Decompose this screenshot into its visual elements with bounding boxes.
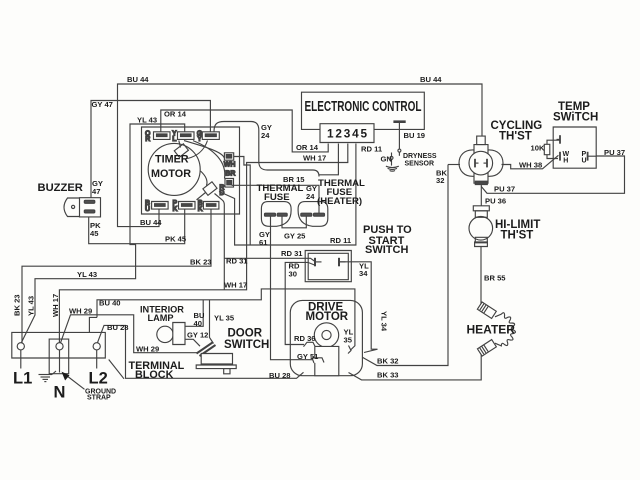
svg-text:BLOCK: BLOCK <box>135 369 174 381</box>
timer terminal OR <box>145 130 170 143</box>
svg-text:BUZZER: BUZZER <box>38 182 83 194</box>
wire BU19 (electronic control to dryness sensor) <box>398 123 400 150</box>
svg-text:24: 24 <box>261 131 270 140</box>
svg-text:FUSE: FUSE <box>264 192 290 203</box>
svg-text:TH'ST: TH'ST <box>499 131 532 143</box>
door switch <box>196 343 236 374</box>
svg-text:U: U <box>582 158 587 165</box>
wire YL43 box around timer <box>21 124 184 343</box>
timer terminal WH <box>224 153 236 169</box>
svg-text:LAMP: LAMP <box>148 313 174 323</box>
svg-text:WH 29: WH 29 <box>69 307 92 316</box>
electronic control pin box 1 2 3 4 5 <box>320 124 374 143</box>
svg-text:TIMER: TIMER <box>155 154 189 166</box>
timer terminal YL <box>172 130 194 143</box>
svg-text:SWITCH: SWITCH <box>224 339 269 351</box>
svg-text:47: 47 <box>92 187 100 196</box>
svg-text:BU 19: BU 19 <box>404 131 426 140</box>
svg-text:WH 29: WH 29 <box>136 345 159 354</box>
electronic control box <box>302 92 425 129</box>
timer terminal BU <box>145 200 168 213</box>
svg-text:DOOR: DOOR <box>228 328 263 340</box>
svg-text:U: U <box>145 206 150 213</box>
svg-text:RD 11: RD 11 <box>361 145 383 154</box>
wire BR15 (timer BR terminal to thermal fuse heater) <box>232 185 319 213</box>
wire YL35 door switch drop <box>210 300 214 344</box>
svg-text:BR 55: BR 55 <box>484 274 506 283</box>
svg-text:R: R <box>145 136 150 143</box>
push to start switch box <box>305 251 351 282</box>
svg-text:YL 43: YL 43 <box>77 270 97 279</box>
svg-text:RD 31: RD 31 <box>226 257 248 266</box>
dryness sensor ground symbol <box>386 166 399 171</box>
svg-text:RD 31: RD 31 <box>281 249 303 258</box>
timer motor box <box>142 127 240 214</box>
svg-text:SWiTCH: SWiTCH <box>553 112 598 124</box>
svg-text:RD 36: RD 36 <box>294 334 316 343</box>
svg-text:N: N <box>54 384 66 402</box>
terminal block <box>12 332 106 373</box>
svg-text:YL 35: YL 35 <box>214 314 235 323</box>
wire L2 stub below <box>96 350 98 369</box>
buzzer <box>64 198 101 217</box>
wire RD11 loop (timer WH terminal around thermal fuses to control pin 4) <box>234 157 251 246</box>
wire cycling left stub <box>448 164 460 166</box>
svg-text:SENSOR: SENSOR <box>405 161 435 168</box>
wire GY25 (bridge between thermal fuses) <box>282 215 306 228</box>
wire GY47 (buzzer to timer GY terminal) <box>91 101 210 199</box>
svg-text:BK 32: BK 32 <box>377 357 399 366</box>
wire N stub below <box>59 350 61 373</box>
wire WH38 (cycling thermostat to temp switch WH) <box>502 155 559 169</box>
temp switch box <box>544 127 596 168</box>
svg-text:BU 28: BU 28 <box>107 323 129 332</box>
svg-text:BU 44: BU 44 <box>140 218 162 227</box>
cycling thermostat <box>459 136 503 184</box>
svg-text:PU 37: PU 37 <box>604 148 625 157</box>
svg-text:32: 32 <box>436 176 444 185</box>
svg-text:12345: 12345 <box>327 127 367 141</box>
wire dryness sensor ground lead <box>391 159 393 165</box>
svg-text:DRYNESS: DRYNESS <box>403 153 437 160</box>
svg-text:WH 17: WH 17 <box>51 294 60 317</box>
timer terminal PK <box>173 200 196 213</box>
interior lamp <box>157 323 185 345</box>
wire BU40 (lamp to terminal block area) <box>185 300 203 327</box>
wire GY61-GY51 (thermal fuse to drive motor) <box>271 215 315 360</box>
svg-text:WH: WH <box>224 161 236 168</box>
wire WH17 (control pin 3 to N terminal) <box>59 144 347 343</box>
heater coil <box>495 313 515 346</box>
svg-text:WH 17: WH 17 <box>303 154 326 163</box>
wire GY24 control pin 2 drop <box>319 144 338 175</box>
svg-text:BU 40: BU 40 <box>99 299 121 308</box>
svg-text:PU 36: PU 36 <box>485 197 506 206</box>
svg-text:TH'ST: TH'ST <box>501 230 534 242</box>
timer contact diamond upper <box>174 144 188 158</box>
svg-text:Y: Y <box>197 136 202 143</box>
svg-text:GY 51: GY 51 <box>297 352 319 361</box>
svg-text:BU 28: BU 28 <box>269 371 291 380</box>
svg-text:L2: L2 <box>89 370 108 388</box>
svg-text:30: 30 <box>289 270 297 279</box>
svg-text:61: 61 <box>259 238 268 247</box>
wire L1 stub below <box>20 350 22 369</box>
electronic control BU19 terminal bar <box>393 120 405 123</box>
wire GY24 (timer GY terminal curve to thermal fuse heater) <box>214 122 319 177</box>
wire YL34 (push-to-start right contact to drive motor right side) <box>340 262 378 353</box>
heater terminal bottom <box>477 340 496 356</box>
svg-text:YL 43: YL 43 <box>27 296 36 316</box>
svg-text:45: 45 <box>90 229 99 238</box>
drive motor <box>290 300 362 375</box>
svg-text:YL 34: YL 34 <box>380 311 389 332</box>
svg-text:GY 12: GY 12 <box>187 331 208 340</box>
wire GY12 (lamp to door switch arm) <box>185 339 200 346</box>
timer contact diamond lower <box>203 182 217 196</box>
svg-text:D: D <box>219 190 224 197</box>
svg-text:GN: GN <box>381 155 392 164</box>
timer cam curves <box>184 141 224 158</box>
wire BU28 (L2 terminal to drive motor) <box>98 325 304 378</box>
ground strap arrow and leader <box>62 372 85 390</box>
svg-text:RD 11: RD 11 <box>330 236 352 245</box>
svg-text:WH 17: WH 17 <box>224 281 247 290</box>
svg-text:WH 38: WH 38 <box>519 161 542 170</box>
svg-text:MOTOR: MOTOR <box>151 168 191 180</box>
svg-text:40: 40 <box>194 319 202 328</box>
wire BU44 top rail (timer BU terminal to cycling thermostat) <box>118 84 483 227</box>
wire PK45 (buzzer to timer PK terminal) <box>89 209 185 243</box>
svg-text:OR 14: OR 14 <box>164 110 187 119</box>
svg-text:BK 33: BK 33 <box>377 371 399 380</box>
svg-text:YL 43: YL 43 <box>137 116 157 125</box>
svg-text:PK 45: PK 45 <box>165 235 187 244</box>
ground strap symbol at N <box>39 371 57 382</box>
wire PU37 (cycling thermostat to temp switch PU) <box>481 156 624 193</box>
svg-text:BU 44: BU 44 <box>420 75 442 84</box>
timer terminal BR <box>219 171 235 197</box>
timer terminal BK <box>198 200 219 213</box>
svg-text:STRAP: STRAP <box>87 395 111 402</box>
wire RD30 (push-to-start left contact down to drive motor RD36) <box>285 262 314 344</box>
wire BK33 (heater bottom to drive motor) <box>349 355 482 380</box>
svg-text:GY 25: GY 25 <box>284 232 306 241</box>
wire BK32 (cycling thermostat to drive motor) <box>363 165 448 366</box>
dryness sensor connector circles <box>390 149 401 159</box>
svg-text:35: 35 <box>344 336 353 345</box>
svg-text:10K: 10K <box>531 144 545 153</box>
svg-text:GY 47: GY 47 <box>92 100 113 109</box>
svg-text:BR: BR <box>225 171 235 178</box>
svg-text:H: H <box>563 158 568 165</box>
wire WH29 (N terminal to door switch) <box>61 315 199 353</box>
svg-text:L1: L1 <box>13 370 32 388</box>
svg-text:BU 44: BU 44 <box>127 75 149 84</box>
thermal fuse heater body <box>298 202 328 227</box>
svg-text:24: 24 <box>306 192 315 201</box>
thermal fuse left body <box>261 202 291 227</box>
hi-limit thermostat <box>469 206 493 247</box>
svg-text:L: L <box>172 136 177 143</box>
svg-text:MOTOR: MOTOR <box>306 311 349 323</box>
svg-text:K: K <box>173 206 178 213</box>
svg-text:OR 14: OR 14 <box>296 143 319 152</box>
svg-text:ELECTRONIC CONTROL: ELECTRONIC CONTROL <box>305 99 422 115</box>
terminal block leader line <box>109 360 124 379</box>
svg-text:34: 34 <box>359 269 368 278</box>
svg-text:PU 37: PU 37 <box>494 185 515 194</box>
wire PU36 (cycling thermostat to hi-limit) <box>480 184 482 206</box>
heater terminal top <box>477 302 496 318</box>
wire BR55 (hi-limit to heater) <box>480 247 482 305</box>
svg-text:BK 23: BK 23 <box>190 258 212 267</box>
svg-text:HEATER: HEATER <box>467 323 516 337</box>
svg-text:(HEATER): (HEATER) <box>317 196 362 207</box>
wire YL35 (door switch to drive motor) <box>89 317 97 333</box>
svg-text:K: K <box>198 206 203 213</box>
wire OR14 (timer OR terminal to control pin 1) <box>161 110 328 152</box>
wire BK23 (timer BK terminal to L1) <box>22 209 211 342</box>
svg-text:BK 23: BK 23 <box>13 294 22 316</box>
wire RD31 (push-to-start left contact to lower rail) <box>223 205 225 290</box>
svg-text:SWITCH: SWITCH <box>365 244 408 256</box>
timer terminal GY <box>197 130 220 143</box>
